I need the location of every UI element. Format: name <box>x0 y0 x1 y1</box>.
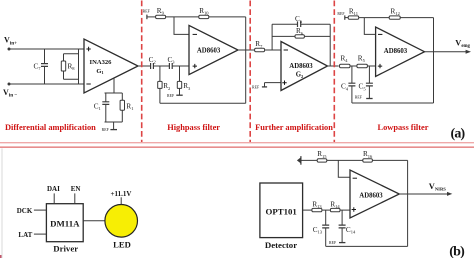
svg-text:EN: EN <box>71 185 81 193</box>
resistor R14 <box>330 201 340 212</box>
wire C3 to + input <box>172 65 189 67</box>
capacitor C5 <box>359 66 373 99</box>
wire DM11A to LED <box>83 220 105 222</box>
wire bottom rail C4 to output <box>352 102 434 104</box>
svg-text:R11: R11 <box>349 8 358 17</box>
resistor R13 <box>312 201 322 212</box>
capacitor C6 feedback <box>272 15 330 27</box>
wire R4 to R5 <box>350 65 357 67</box>
resistor R4 <box>340 54 351 67</box>
wire op-amp output to C2 <box>138 65 151 67</box>
wire output stage3 to R4 <box>328 65 339 67</box>
svg-text:AD8603: AD8603 <box>289 63 313 70</box>
wire R5 to + input <box>367 65 375 67</box>
wire R11 to R12 <box>359 17 390 19</box>
ground REF section b <box>329 241 345 245</box>
wire R9/R10 node to - input <box>174 17 189 35</box>
op-amp U5 AD8603 <box>350 170 399 218</box>
wire R11/R12 node to - input <box>364 18 375 35</box>
svg-text:REF: REF <box>143 9 151 13</box>
ground REF stage4 <box>355 96 373 100</box>
capacitor C13 <box>313 210 329 246</box>
divider dashed line 1 <box>141 1 143 143</box>
resistor R16 <box>363 150 373 162</box>
resistor R11 <box>348 8 359 20</box>
wire R9 to R10 <box>166 16 199 18</box>
divider dashed line 2 <box>249 1 251 143</box>
svg-text:Detector: Detector <box>265 240 297 250</box>
svg-text:OPT101: OPT101 <box>266 206 297 216</box>
svg-text:C2: C2 <box>149 56 156 65</box>
wire feedback right vertical to output <box>329 24 331 66</box>
resistor R2 <box>158 66 171 103</box>
wire input shunt branch <box>64 49 79 84</box>
svg-text:REF: REF <box>252 85 260 89</box>
wire R13 to R14 <box>322 209 331 211</box>
IC DM11A driver block <box>46 204 83 254</box>
svg-text:(a): (a) <box>451 126 466 141</box>
wire R15/R16 node to - input <box>338 160 350 177</box>
svg-text:DCK: DCK <box>17 207 33 215</box>
svg-text:R14: R14 <box>330 201 340 210</box>
wire REF to R9 <box>147 16 156 18</box>
svg-text:C7: C7 <box>33 63 41 72</box>
wire Vin- to op-amp - input <box>9 83 84 85</box>
svg-text:R6: R6 <box>296 27 304 36</box>
pin LAT <box>18 231 46 239</box>
svg-text:R8: R8 <box>68 63 76 72</box>
svg-text:Vemg: Vemg <box>455 38 470 49</box>
capacitor C4 <box>341 66 355 103</box>
wire R7 to - input <box>265 49 281 51</box>
node REF terminal stage2 <box>143 9 151 19</box>
pin DCK <box>17 207 47 215</box>
mark bottom-left corner <box>0 255 2 258</box>
border faint left edge <box>1 148 3 258</box>
resistor R7 <box>255 40 265 52</box>
ground REF stage1 <box>102 122 117 132</box>
pin EN <box>71 185 81 204</box>
op-amp U2 AD8603 <box>189 25 238 74</box>
svg-text:Further amplification: Further amplification <box>255 123 333 132</box>
node feedback left terminal <box>297 156 301 165</box>
svg-text:R2: R2 <box>163 82 170 91</box>
wire C2 to C3 <box>153 65 169 67</box>
resistor R8 <box>61 61 75 71</box>
resistor R3 <box>177 66 191 95</box>
wire R14 to + input <box>340 209 350 211</box>
node REF terminal stage3 <box>252 83 267 90</box>
svg-text:LED: LED <box>113 240 131 250</box>
capacitor C2 <box>149 56 156 69</box>
resistor R9 <box>156 7 166 19</box>
wire OPT101 to R13 <box>303 209 312 211</box>
node Vemg output arrow <box>455 38 471 53</box>
node +11.1V supply <box>111 190 132 205</box>
svg-text:AD8603: AD8603 <box>359 192 383 199</box>
svg-text:DAI: DAI <box>47 185 60 193</box>
resistor R5 <box>357 54 368 67</box>
svg-text:R12: R12 <box>391 8 400 17</box>
svg-text:Vin −: Vin − <box>3 88 17 99</box>
wire bottom rail C13 to feedback <box>326 245 408 247</box>
svg-text:C5: C5 <box>359 83 367 92</box>
resistor R12 <box>389 8 400 20</box>
wire R10 to feedback vertical <box>209 16 246 18</box>
svg-text:R13: R13 <box>312 201 322 210</box>
svg-text:R15: R15 <box>317 150 327 159</box>
wire bottom rail R2 to output <box>160 102 246 104</box>
svg-text:Lowpass filter: Lowpass filter <box>378 123 429 132</box>
wire feedback vertical stage4 <box>433 18 435 103</box>
svg-text:LAT: LAT <box>18 231 32 239</box>
svg-text:R1: R1 <box>126 102 133 111</box>
svg-text:AD8603: AD8603 <box>197 48 221 55</box>
separator red line lower <box>0 146 474 148</box>
capacitor C1 <box>94 93 110 122</box>
svg-text:R3: R3 <box>183 82 191 91</box>
svg-text:Differential amplification: Differential amplification <box>5 123 96 132</box>
op-amp U4 AD8603 <box>376 27 425 76</box>
svg-text:R10: R10 <box>199 7 209 16</box>
node Vin- terminal <box>3 83 17 99</box>
wire output to Vemg <box>425 51 467 53</box>
wire R15 to R16 <box>327 159 363 161</box>
node Vnirs output arrow <box>429 182 453 196</box>
wire feedback vertical to output and bottom rail <box>245 17 247 103</box>
svg-text:REF: REF <box>329 241 337 245</box>
resistor R1 <box>120 93 133 122</box>
op-amp U1 INA326 G1 <box>84 39 138 93</box>
wire REF to R11 <box>345 17 348 19</box>
wire Vin+ to op-amp + input <box>9 48 84 50</box>
svg-text:C4: C4 <box>341 83 349 92</box>
LED lamp <box>105 205 138 250</box>
wire R12 to feedback vertical <box>400 17 433 19</box>
svg-text:REF: REF <box>337 12 345 16</box>
wire op-amp output to R7 <box>238 49 255 51</box>
wire REF to + input <box>265 82 282 84</box>
svg-text:Driver: Driver <box>53 243 78 253</box>
wire terminal to R15 <box>301 159 317 161</box>
ground REF stage2 <box>167 94 183 98</box>
svg-text:C1: C1 <box>94 102 101 111</box>
node Vin+ terminal <box>4 36 17 51</box>
svg-text:REF: REF <box>167 94 175 98</box>
pin DAI <box>47 185 60 204</box>
wire output to Vnirs <box>399 193 449 195</box>
svg-text:R16: R16 <box>363 150 373 159</box>
svg-text:Highpass filter: Highpass filter <box>167 123 220 132</box>
resistor R15 <box>317 150 327 162</box>
svg-text:DM11A: DM11A <box>50 219 80 229</box>
resistor R10 <box>199 7 209 19</box>
svg-text:R7: R7 <box>255 40 263 49</box>
wire feedback leg from op-amp underside <box>105 78 123 122</box>
svg-text:INA326: INA326 <box>90 59 113 66</box>
divider dashed line 3 <box>333 1 335 143</box>
svg-text:C3: C3 <box>167 56 175 65</box>
capacitor C14 <box>339 210 356 243</box>
separator red line upper <box>0 142 474 144</box>
capacitor C3 <box>167 56 175 69</box>
svg-text:AD8603: AD8603 <box>384 48 408 55</box>
svg-text:Vin+: Vin+ <box>4 36 17 47</box>
resistor R6 feedback <box>272 27 330 38</box>
node REF terminal stage4 <box>337 12 345 20</box>
svg-text:R9: R9 <box>157 7 165 16</box>
svg-text:R4: R4 <box>340 54 348 63</box>
IC OPT101 detector block <box>260 183 303 250</box>
wire R16 to feedback vertical <box>372 159 407 161</box>
svg-text:+11.1V: +11.1V <box>111 190 132 198</box>
svg-text:REF: REF <box>102 128 110 132</box>
svg-text:C6: C6 <box>295 15 303 24</box>
svg-text:REF: REF <box>355 96 363 100</box>
svg-text:C13: C13 <box>313 226 323 235</box>
op-amp U3 AD8603 G2 <box>281 42 328 91</box>
capacitor C7 <box>33 49 48 84</box>
wire feedback left vertical <box>271 24 273 50</box>
svg-text:VNIRS: VNIRS <box>429 182 446 192</box>
svg-text:(b): (b) <box>449 244 465 258</box>
wire feedback vertical section b <box>407 160 409 246</box>
svg-text:R5: R5 <box>358 54 366 63</box>
svg-text:C14: C14 <box>346 226 356 235</box>
